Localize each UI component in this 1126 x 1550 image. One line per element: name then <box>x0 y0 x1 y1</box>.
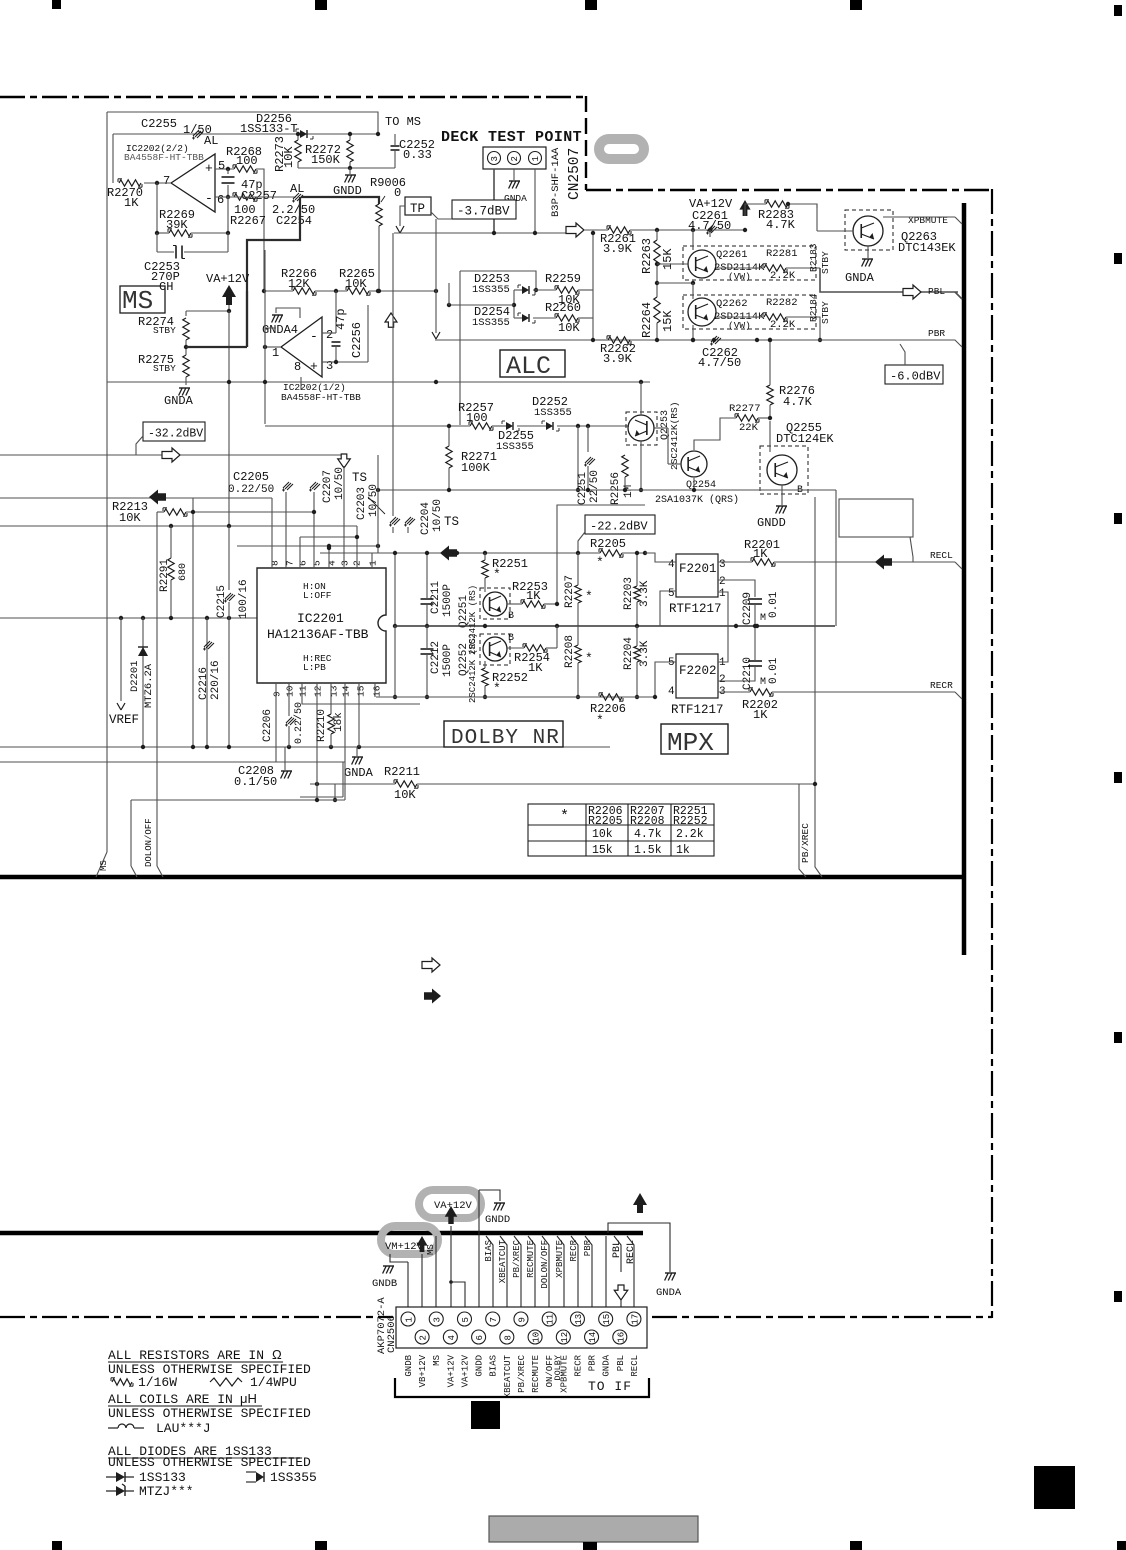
svg-text:7: 7 <box>489 1317 499 1322</box>
svg-text:C2209: C2209 <box>742 592 754 625</box>
svg-text:RECL: RECL <box>626 1240 637 1264</box>
wire bus y525 <box>0 525 357 527</box>
svg-text:10K: 10K <box>558 321 580 335</box>
flag -32.2dBV <box>143 422 205 441</box>
svg-text:6: 6 <box>298 560 309 566</box>
wire top feedback bus <box>113 133 378 135</box>
svg-text:2SC2412K (RS): 2SC2412K (RS) <box>468 633 478 703</box>
svg-text:R2277: R2277 <box>729 403 761 415</box>
wire signal XPBMUTE <box>557 1236 564 1330</box>
svg-text:AL: AL <box>204 134 218 148</box>
arrow up pin2 VB+12V <box>416 1236 427 1252</box>
svg-text:1K: 1K <box>753 708 768 722</box>
svg-text:R2183: R2183 <box>808 243 819 272</box>
svg-text:R2208: R2208 <box>630 815 665 828</box>
wire PBL from Q2261 <box>820 268 958 292</box>
svg-text:GNDD: GNDD <box>475 1355 485 1377</box>
svg-text:MPX: MPX <box>667 728 714 758</box>
resistor R2270 <box>119 180 141 186</box>
black arrow left on y497 <box>149 490 166 505</box>
hollow up arrow near op-amp2 <box>385 313 397 327</box>
registration mark top 1 <box>52 0 61 9</box>
svg-text:B: B <box>508 633 514 644</box>
wire left entry column <box>435 219 437 333</box>
note coil symbol <box>108 1427 118 1429</box>
svg-text:13: 13 <box>329 685 340 697</box>
svg-text:GNDA: GNDA <box>602 1354 612 1376</box>
wire R2213 row <box>157 511 164 513</box>
filter F2201 box <box>676 554 718 597</box>
svg-text:0.1/50: 0.1/50 <box>234 775 277 789</box>
svg-text:R2205: R2205 <box>590 537 626 551</box>
wire Q2263 base from R2283 <box>817 230 853 232</box>
pin 10 circle <box>528 1330 542 1344</box>
svg-text:ALC: ALC <box>506 352 551 381</box>
svg-text:R2205: R2205 <box>588 815 623 828</box>
wire output to left column <box>265 346 281 348</box>
svg-text:BIAS: BIAS <box>489 1355 499 1377</box>
filter F2202 box <box>676 654 718 698</box>
svg-text:*: * <box>596 713 604 728</box>
svg-text:0.33: 0.33 <box>403 148 432 162</box>
resistor R2281 2.2K <box>764 265 786 271</box>
wire loop diagonal to RECL <box>910 537 913 562</box>
svg-text:R2282: R2282 <box>766 297 798 309</box>
flow arrow on bus <box>566 223 584 237</box>
svg-text:C2205: C2205 <box>233 470 269 484</box>
svg-text:R2210: R2210 <box>316 709 328 742</box>
svg-text:R2203: R2203 <box>623 577 635 610</box>
svg-text:39K: 39K <box>166 218 188 232</box>
svg-text:7: 7 <box>163 174 170 188</box>
pin 3 circle <box>488 152 501 165</box>
svg-text:DOLBY: DOLBY <box>553 1355 563 1381</box>
pin 12 circle <box>556 1330 570 1344</box>
svg-text:9: 9 <box>272 691 283 697</box>
wire long vertical x815 PB/XREC <box>814 497 816 784</box>
svg-text:PB/XREC: PB/XREC <box>512 1239 522 1277</box>
svg-text:2SC2412K(RS): 2SC2412K(RS) <box>669 402 680 470</box>
wire thick AL to MS feed <box>247 197 300 347</box>
pin 6 circle <box>472 1330 486 1344</box>
wire bus y230 right segment <box>630 229 745 231</box>
wire R2277 to Q2255 base column <box>758 417 770 419</box>
wire pin4 VA+12V <box>450 1282 452 1330</box>
resistor R2283 <box>766 201 788 207</box>
svg-text:10k: 10k <box>592 828 613 841</box>
wire pin3 MS from bar <box>435 1236 437 1312</box>
transistor Q2252 <box>480 634 510 665</box>
capacitor C2255 <box>193 130 199 136</box>
wire corner feed to flag <box>557 505 645 604</box>
wire DOLON/OFF column <box>130 800 132 866</box>
caps pair near IC pins <box>390 517 396 523</box>
svg-text:R2184: R2184 <box>808 293 819 322</box>
border dash-dot upper right horizontal <box>586 189 993 191</box>
wire bus y762 <box>0 761 345 763</box>
svg-text:XBEATCUT: XBEATCUT <box>503 1354 513 1398</box>
svg-text:3: 3 <box>719 559 726 571</box>
svg-text:R2264: R2264 <box>640 302 654 338</box>
svg-text:PB/XREC: PB/XREC <box>800 823 811 863</box>
ground GNDB <box>383 1265 394 1267</box>
wire F2201 pin5 <box>660 591 676 626</box>
wire Q2261 emitter to R2281 <box>716 267 764 269</box>
svg-text:STBY: STBY <box>153 363 176 374</box>
wire ALC rows left column <box>513 290 515 318</box>
svg-text:C2206: C2206 <box>262 709 274 742</box>
svg-text:R2260: R2260 <box>545 301 581 315</box>
wire input bus y455 <box>0 454 344 456</box>
svg-text:UNLESS OTHERWISE SPECIFIED: UNLESS OTHERWISE SPECIFIED <box>108 1455 311 1470</box>
svg-text:VA+12V: VA+12V <box>206 272 250 286</box>
svg-text:GNDA: GNDA <box>656 1287 682 1299</box>
svg-text:2.2k: 2.2k <box>676 828 704 841</box>
svg-text:LAU***J: LAU***J <box>156 1421 211 1436</box>
wire R9006 lower leg <box>378 226 380 291</box>
capacitor C2211 1500P <box>421 598 434 600</box>
svg-text:C2256: C2256 <box>350 322 364 358</box>
black tab under grey footer bar <box>583 1542 597 1550</box>
svg-text:ALL COILS ARE IN: ALL COILS ARE IN <box>108 1392 233 1407</box>
wire bus y747 <box>0 746 610 748</box>
svg-text:*: * <box>585 651 593 666</box>
registration mark top 4 <box>850 0 862 10</box>
svg-text:4.7/50: 4.7/50 <box>698 356 741 370</box>
wire GNDA corner <box>342 762 344 797</box>
svg-text:220/16: 220/16 <box>210 660 222 700</box>
svg-text:*: * <box>596 555 604 570</box>
wire Q2262 collector column <box>692 283 694 299</box>
pin 2 circle <box>508 152 521 165</box>
svg-text:-: - <box>310 329 318 344</box>
wire vertical x378 <box>377 455 379 553</box>
wire bus y490 <box>378 489 836 491</box>
wire vertical x799 to bus bar <box>799 784 806 877</box>
resistor R2282 2.2K <box>764 314 786 320</box>
wire down from box to ALC <box>448 283 450 305</box>
svg-text:PBR: PBR <box>583 1239 593 1256</box>
svg-text:3.3K: 3.3K <box>639 640 651 667</box>
svg-text:C2257: C2257 <box>241 189 277 203</box>
hollow down arrow end of y455 <box>338 454 351 468</box>
svg-text:15K: 15K <box>661 310 675 332</box>
svg-text:100: 100 <box>466 411 488 425</box>
box MS label <box>120 286 165 313</box>
wire VREF column with arrow <box>120 618 122 695</box>
svg-text:VA+12V: VA+12V <box>460 1354 470 1387</box>
svg-text:2: 2 <box>719 576 726 588</box>
wire Q2261 base from bus <box>657 263 688 265</box>
dashed box Q2261 <box>683 246 816 280</box>
resistor R2251 vertical <box>482 560 488 578</box>
wire Q2252 emitter row <box>507 647 524 649</box>
schematic frame top edge <box>107 112 378 133</box>
border dash-dot bottom left segment <box>0 1316 393 1318</box>
table resistor values <box>528 804 714 856</box>
ground GNDA below R2275 <box>179 387 190 389</box>
diode D2254 <box>522 314 529 322</box>
svg-text:10/50: 10/50 <box>432 499 444 532</box>
resistor R9006 vertical <box>376 204 382 226</box>
wire bus continue to R2261 <box>584 229 608 231</box>
wire ALC row1 <box>514 289 522 291</box>
svg-text:10: 10 <box>285 685 296 697</box>
svg-text:12: 12 <box>313 685 324 697</box>
wire R2205 row <box>622 552 645 554</box>
wire junction R2274-R2275 <box>185 340 187 355</box>
sub-circuit box around IC2202(1/2) <box>264 250 266 347</box>
resistor R2267 <box>234 194 256 200</box>
svg-text:STBY: STBY <box>820 251 831 274</box>
resistor R2206 <box>600 694 622 700</box>
flow arrow PBL <box>903 285 921 299</box>
svg-text:B: B <box>508 611 514 622</box>
svg-text:2: 2 <box>419 1335 429 1340</box>
svg-text:R2207: R2207 <box>564 575 576 608</box>
svg-text:-3.7dBV: -3.7dBV <box>457 205 510 219</box>
border dashed vertical at CN2507 <box>585 96 587 190</box>
svg-text:R2204: R2204 <box>623 637 635 670</box>
note diode 1SS133 symbol <box>106 1476 116 1478</box>
svg-text:R2259: R2259 <box>545 272 581 286</box>
svg-text:RECL: RECL <box>930 550 953 561</box>
pin 15 circle <box>599 1312 613 1326</box>
resistor R2262 3.9K <box>608 337 630 343</box>
svg-text:1K: 1K <box>753 547 768 561</box>
wire lower return bus <box>298 167 395 169</box>
svg-text:PB/XREC: PB/XREC <box>517 1354 527 1392</box>
resistor R2263 vertical 15K <box>654 240 660 266</box>
resistor R2257 100 <box>470 423 492 429</box>
svg-text:GNDA: GNDA <box>845 271 875 285</box>
svg-text:-22.2dBV: -22.2dBV <box>590 520 648 534</box>
svg-text:GNDD: GNDD <box>757 516 786 530</box>
capacitor C2252 <box>391 145 400 147</box>
resistor R2204 vertical 3.3K <box>634 646 640 662</box>
resistor R2276 4.7K vertical <box>767 385 773 405</box>
transistor Q2253 <box>626 412 657 445</box>
svg-text:1: 1 <box>272 346 279 360</box>
svg-text:DTC124EK: DTC124EK <box>776 432 834 446</box>
wire Q2255 emitter to ground <box>781 485 783 505</box>
box ALC label <box>500 350 565 377</box>
thick bus bar horizontal (board edge) <box>0 875 966 880</box>
box DOLBY NR label <box>444 721 563 747</box>
grey footer bar <box>489 1516 698 1542</box>
svg-text:4.7K: 4.7K <box>766 218 796 232</box>
schematic frame left edge <box>106 112 108 852</box>
svg-text:C2204: C2204 <box>420 502 432 535</box>
resistor R2275 vertical <box>183 355 189 377</box>
svg-text:+: + <box>310 359 318 374</box>
wire signal PB/XREC <box>514 1236 521 1312</box>
svg-text:4: 4 <box>668 686 675 698</box>
svg-text:-6.0dBV: -6.0dBV <box>890 370 941 384</box>
wire pin3 down <box>493 169 495 233</box>
svg-text:TS: TS <box>352 471 367 485</box>
svg-text:3: 3 <box>326 359 333 373</box>
IC U2201 body <box>257 568 386 683</box>
svg-text:2.2K: 2.2K <box>770 319 796 331</box>
ground GNDD under Q2255 <box>776 505 787 507</box>
capacitor C2256 47p <box>332 341 341 343</box>
svg-text:1K: 1K <box>124 196 139 210</box>
svg-text:VA+12V: VA+12V <box>446 1354 456 1387</box>
svg-text:14: 14 <box>341 685 352 697</box>
capacitor C2254 AL <box>293 193 299 199</box>
svg-text:B3P-SHF-1AA: B3P-SHF-1AA <box>550 147 562 217</box>
svg-text:1/4WPU: 1/4WPU <box>250 1375 297 1390</box>
wire capsule to GNDD <box>479 1190 500 1201</box>
diode on wire (D2252) <box>506 422 513 430</box>
svg-text:4: 4 <box>447 1335 457 1340</box>
svg-text:AL: AL <box>290 182 304 196</box>
svg-text:8: 8 <box>270 560 281 566</box>
svg-text:1SS133: 1SS133 <box>139 1470 186 1485</box>
wire op-amp output left leg <box>112 134 114 183</box>
svg-text:2SA1037K (QRS): 2SA1037K (QRS) <box>655 494 739 506</box>
wire signal RECMUTE <box>528 1236 535 1330</box>
svg-text:18k: 18k <box>333 712 345 732</box>
svg-text:IC2201: IC2201 <box>297 611 344 626</box>
svg-text:MTZ6.2A: MTZ6.2A <box>143 663 155 708</box>
wire Q2254 emitter down <box>693 478 695 490</box>
svg-text:RECL: RECL <box>630 1355 640 1377</box>
svg-text:XBEATCUT: XBEATCUT <box>498 1239 508 1283</box>
capacitor C2208 0.1/50 <box>284 747 286 770</box>
svg-text:+: + <box>205 161 213 176</box>
svg-text:1: 1 <box>405 1317 415 1322</box>
wire PBR exit <box>820 340 962 347</box>
wire Q2254 base from Q2253 <box>654 427 668 429</box>
capacitor C2205 symbol <box>283 482 289 488</box>
wire pin1 GNDB <box>407 1262 409 1312</box>
svg-text:RECR: RECR <box>569 1239 579 1261</box>
svg-text:680: 680 <box>178 563 189 581</box>
svg-text:Q2261: Q2261 <box>716 249 748 261</box>
svg-text:5: 5 <box>668 588 675 600</box>
svg-text:15: 15 <box>602 1314 612 1325</box>
svg-text:1: 1 <box>368 560 379 566</box>
svg-text:47p: 47p <box>334 308 348 330</box>
svg-text:*: * <box>493 567 501 582</box>
svg-text:DOLON/OFF: DOLON/OFF <box>540 1240 550 1289</box>
power capsule VM+12V <box>381 1226 438 1254</box>
svg-text:17: 17 <box>630 1314 640 1325</box>
svg-text:C2212: C2212 <box>430 641 442 674</box>
svg-text:MS: MS <box>122 286 153 316</box>
wire Q2262 emitter to R2282 <box>716 316 764 318</box>
wire R2269 loop <box>156 183 158 233</box>
svg-text:STBY: STBY <box>153 325 176 336</box>
svg-text:BA4558F-HT-TBB: BA4558F-HT-TBB <box>124 152 204 163</box>
capacitor C2262 <box>711 336 717 342</box>
wire Q2251 emitter row <box>507 603 522 605</box>
svg-text:PBR: PBR <box>928 328 945 339</box>
svg-text:MS: MS <box>99 860 109 871</box>
wire signal XBEATCUT <box>500 1236 507 1330</box>
svg-text:15: 15 <box>356 685 367 697</box>
svg-text:ALL RESISTORS ARE IN: ALL RESISTORS ARE IN <box>108 1348 264 1363</box>
svg-text:3: 3 <box>490 156 500 161</box>
connector CN2507 box <box>483 147 546 169</box>
flow arrow on y455 <box>162 448 180 462</box>
wire F2202 pin5 loop <box>655 662 676 697</box>
wire R2275 to ground <box>185 377 187 385</box>
wire RECL row <box>718 561 752 563</box>
wire VM capsule to GNDB <box>390 1254 408 1262</box>
resistor R2273 vertical <box>295 140 301 162</box>
svg-text:TS: TS <box>444 515 459 529</box>
svg-text:GNDA: GNDA <box>164 394 194 408</box>
svg-text:11: 11 <box>546 1314 556 1325</box>
ground GNDA of CN2507 <box>513 169 515 180</box>
svg-text:STBY: STBY <box>820 301 831 324</box>
wire signal RECR <box>571 1236 578 1312</box>
svg-text:3.9K: 3.9K <box>603 242 633 256</box>
svg-text:12: 12 <box>560 1332 570 1343</box>
ground GNDA pin4 <box>272 314 283 316</box>
resistor R2259 10K <box>556 287 578 293</box>
svg-text:Q2262: Q2262 <box>716 298 748 310</box>
wire Q2262 base <box>657 282 693 284</box>
svg-text:C2211: C2211 <box>430 581 442 614</box>
flow arrows middle of page <box>422 958 440 972</box>
svg-text:VM+12V: VM+12V <box>385 1241 424 1253</box>
svg-text:MTZJ***: MTZJ*** <box>139 1484 194 1499</box>
diode D2253 <box>522 286 529 294</box>
wire Q2261 collector up <box>692 246 694 250</box>
svg-text:22/50: 22/50 <box>589 470 601 503</box>
border dash-dot bottom right segment <box>652 1316 992 1318</box>
capacitor C2212 1500P <box>421 648 434 650</box>
border dash-dot right vertical <box>991 189 993 1318</box>
svg-text:BA4558F-HT-TBB: BA4558F-HT-TBB <box>281 392 361 403</box>
registration mark bottom right corner <box>1117 1541 1126 1550</box>
resistor R2264 vertical 15K <box>654 297 660 323</box>
op-amp U IC2202(1/2) <box>281 317 322 377</box>
svg-text:11: 11 <box>298 685 309 697</box>
resistor R2208 vertical <box>575 645 581 663</box>
wire Q2253 emitter to bus490 <box>640 441 642 490</box>
svg-text:1: 1 <box>719 588 726 600</box>
svg-text:C2254: C2254 <box>276 214 312 228</box>
capacitor C2209 0.01M <box>748 598 762 600</box>
svg-text:10K: 10K <box>345 277 367 291</box>
svg-text:PBR: PBR <box>588 1354 598 1371</box>
wire Q2254 collector to R2277 <box>694 418 736 450</box>
dashed box Q2262 <box>683 295 816 329</box>
black arrow up right of capsule <box>633 1193 647 1213</box>
loop rectangle right <box>839 499 913 537</box>
pin 16 circle <box>613 1330 627 1344</box>
wire R2263 R2264 column <box>656 230 658 240</box>
svg-text:15k: 15k <box>592 844 613 857</box>
svg-text:2: 2 <box>510 156 520 161</box>
svg-text:DOLBY NR: DOLBY NR <box>451 727 560 750</box>
svg-text:R2252: R2252 <box>673 815 708 828</box>
wire alc lower row <box>265 425 470 427</box>
svg-text:CN2507: CN2507 <box>567 148 583 200</box>
wire R2206 to left column <box>622 696 655 698</box>
wire vertical x578 to bus490 <box>577 426 579 490</box>
svg-text:(VW): (VW) <box>728 271 751 282</box>
wire VA12 to R2283 <box>745 204 766 216</box>
svg-text:0.22/50: 0.22/50 <box>293 702 305 744</box>
svg-text:5: 5 <box>218 159 225 173</box>
wire F2202 pin1 up <box>718 626 728 662</box>
